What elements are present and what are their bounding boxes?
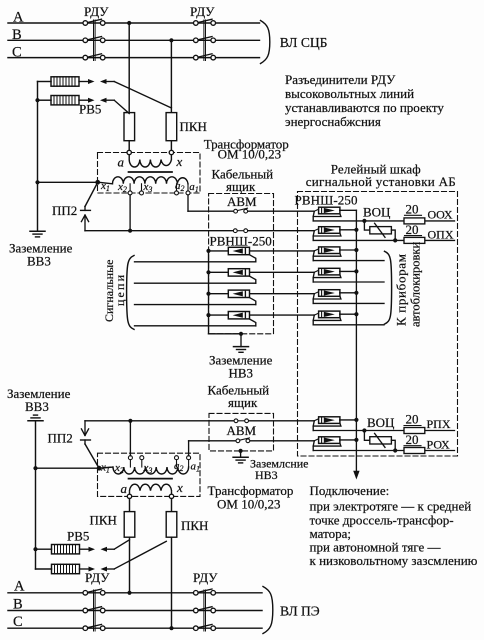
svg-text:a2: a2 bbox=[175, 180, 185, 193]
svg-text:а: а bbox=[121, 481, 128, 496]
svg-text:К приборам: К приборам bbox=[394, 254, 409, 326]
svg-text:ООХ: ООХ bbox=[428, 208, 453, 222]
svg-text:ВВ3: ВВ3 bbox=[25, 399, 49, 414]
svg-text:a1: a1 bbox=[191, 461, 201, 474]
svg-text:a1: a1 bbox=[189, 181, 199, 194]
svg-text:20: 20 bbox=[406, 202, 419, 217]
svg-text:высоковольтных линий: высоковольтных линий bbox=[285, 86, 414, 101]
svg-text:к низковольтному зазсмлению: к низковольтному зазсмлению bbox=[310, 553, 478, 568]
svg-text:РДУ: РДУ bbox=[85, 570, 110, 585]
svg-text:ВОЦ: ВОЦ bbox=[363, 205, 391, 220]
svg-text:ящик: ящик bbox=[228, 395, 258, 410]
svg-text:ВОЦ: ВОЦ bbox=[367, 415, 395, 430]
svg-text:РВ5: РВ5 bbox=[79, 102, 101, 117]
svg-text:А: А bbox=[13, 10, 24, 26]
svg-text:РОХ: РОХ bbox=[427, 438, 451, 452]
svg-text:ВВ3: ВВ3 bbox=[27, 254, 51, 269]
svg-text:20: 20 bbox=[406, 222, 419, 237]
svg-text:РДУ: РДУ bbox=[190, 4, 215, 19]
svg-text:x2: x2 bbox=[114, 462, 124, 475]
svg-text:ВЛ СЦБ: ВЛ СЦБ bbox=[280, 35, 328, 50]
svg-text:x2: x2 bbox=[117, 181, 127, 194]
svg-text:АВМ: АВМ bbox=[227, 194, 257, 209]
svg-text:В: В bbox=[13, 597, 23, 613]
svg-text:НВ3: НВ3 bbox=[229, 366, 254, 381]
svg-text:ПКН: ПКН bbox=[180, 119, 207, 134]
svg-text:20: 20 bbox=[406, 412, 419, 427]
svg-text:ПКН: ПКН bbox=[181, 518, 208, 533]
svg-text:при электротяге — к средней: при электротяге — к средней bbox=[310, 499, 472, 514]
svg-text:РВНШ-250: РВНШ-250 bbox=[295, 193, 358, 208]
svg-text:ОМ 10/0,23: ОМ 10/0,23 bbox=[217, 497, 281, 512]
svg-text:х: х bbox=[176, 480, 183, 495]
svg-text:НВ3: НВ3 bbox=[255, 468, 278, 482]
svg-text:сигнальной установки АБ: сигнальной установки АБ bbox=[306, 174, 456, 189]
svg-text:автоблокировки: автоблокировки bbox=[409, 242, 423, 327]
svg-text:устанавливаются по проекту: устанавливаются по проекту bbox=[285, 100, 444, 115]
svg-text:ПКН: ПКН bbox=[90, 513, 117, 528]
svg-text:цепи: цепи bbox=[113, 274, 127, 306]
svg-text:а: а bbox=[118, 155, 125, 170]
svg-text:Подключение:: Подключение: bbox=[310, 483, 390, 498]
svg-text:x1: x1 bbox=[100, 180, 110, 193]
svg-text:x3: x3 bbox=[143, 462, 153, 475]
svg-text:С: С bbox=[12, 45, 22, 61]
svg-text:ящик: ящик bbox=[226, 179, 256, 194]
svg-text:РДУ: РДУ bbox=[193, 570, 218, 585]
svg-text:ПП2: ПП2 bbox=[52, 203, 77, 218]
svg-text:х: х bbox=[176, 154, 183, 169]
svg-text:Разъединители РДУ: Разъединители РДУ bbox=[285, 72, 396, 87]
svg-text:АВМ: АВМ bbox=[227, 423, 257, 438]
svg-text:ОМ 10/0,23: ОМ 10/0,23 bbox=[218, 147, 282, 162]
svg-text:ОПХ: ОПХ bbox=[428, 228, 454, 242]
svg-text:20: 20 bbox=[406, 432, 419, 447]
svg-text:РПХ: РПХ bbox=[427, 417, 451, 431]
svg-text:А: А bbox=[14, 579, 25, 595]
svg-text:РВНШ-250: РВНШ-250 bbox=[210, 234, 272, 249]
svg-text:x1: x1 bbox=[100, 462, 110, 475]
svg-text:РДУ: РДУ bbox=[84, 4, 109, 19]
svg-text:ВЛ ПЭ: ВЛ ПЭ bbox=[280, 604, 320, 619]
svg-text:x3: x3 bbox=[143, 181, 153, 194]
svg-text:РВ5: РВ5 bbox=[67, 529, 89, 544]
svg-text:В: В bbox=[12, 27, 22, 43]
svg-text:a2: a2 bbox=[174, 460, 184, 473]
svg-text:энергоснабжсния: энергоснабжсния bbox=[285, 114, 381, 129]
svg-text:ПП2: ПП2 bbox=[48, 431, 73, 446]
svg-text:С: С bbox=[13, 614, 23, 630]
